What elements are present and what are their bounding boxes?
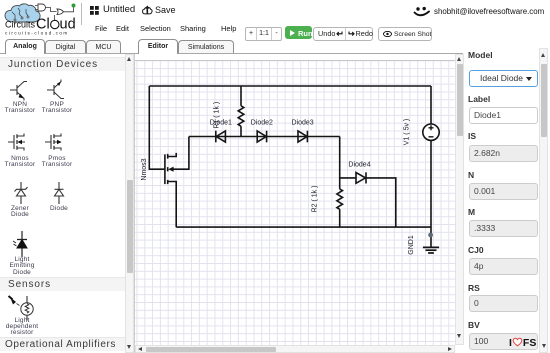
- green node: [72, 4, 76, 8]
- svg-text:circuits-cloud.com: circuits-cloud.com: [5, 31, 69, 36]
- wire Nmos3 body lead to diode row: [172, 137, 189, 170]
- labels: [141, 102, 415, 255]
- tabs: [0, 0, 550, 1]
- scrollbars: [0, 0, 550, 1]
- run button: [285, 26, 312, 39]
- save icon: [142, 5, 153, 15]
- sidebar scrollbar: [125, 54, 134, 353]
- wire from o of Cloud up to OR: [54, 15, 56, 20]
- wire diode4 to bottom right drop: [366, 178, 396, 227]
- untitled icon: [90, 6, 99, 15]
- svg-text:Diode4: Diode4: [348, 162, 370, 169]
- canvas vertical scrollbar: [455, 54, 464, 345]
- canvas: [135, 54, 455, 345]
- diode icon: [48, 182, 70, 204]
- separator: [81, 3, 82, 25]
- right panel: [0, 0, 550, 1]
- inner circuit traces: [12, 8, 29, 21]
- wire gate feed: [149, 86, 164, 169]
- diode Diode4 triangle: [356, 173, 366, 184]
- svg-text:Nmos3: Nmos3: [141, 158, 148, 180]
- wire AND to OR: [46, 8, 57, 12]
- svg-text:Circuits: Circuits: [5, 20, 36, 30]
- wire OR to green dot: [64, 6, 74, 12]
- logo: [2, 1, 82, 39]
- transistor Nmos3 drain stub: [168, 153, 177, 157]
- svg-text:Diode3: Diode3: [292, 120, 314, 127]
- diode Diode4 cathode bar: [365, 172, 367, 183]
- junction node dot: [428, 233, 433, 238]
- wire Nmos3 source lead down: [168, 182, 177, 228]
- nmos transistor icon: [8, 130, 32, 154]
- OR gate: [57, 9, 64, 15]
- AND gate: [38, 4, 46, 11]
- wire top rail to R1: [240, 86, 242, 106]
- panel scrollbar: [539, 48, 548, 353]
- header: [0, 0, 550, 1]
- svg-text:R1 ( 1k ): R1 ( 1k ): [214, 102, 221, 129]
- diode Diode1 triangle: [216, 131, 225, 142]
- wire diode4 branch: [340, 177, 356, 179]
- cloud body: [5, 4, 40, 22]
- menus: [95, 24, 107, 33]
- diode Diode2 triangle: [257, 131, 266, 142]
- diode Diode2 cathode bar: [266, 131, 268, 143]
- svg-text:GND1: GND1: [408, 235, 415, 255]
- light dependent resistor icon: [6, 294, 40, 322]
- pnp transistor icon: [45, 77, 69, 102]
- svg-text:Diode2: Diode2: [251, 120, 273, 127]
- wire R2 to bottom rail: [339, 209, 341, 227]
- watermark I heart FS: [509, 337, 536, 349]
- diode Diode3 triangle: [298, 131, 307, 142]
- light emitting diode icon: [10, 231, 34, 257]
- svg-text:V1 ( 5v ): V1 ( 5v ): [404, 119, 411, 145]
- resistor R2: [337, 189, 343, 209]
- wire R1 to diode row: [240, 126, 242, 136]
- screenshot button: [378, 27, 432, 41]
- zener diode icon: [10, 182, 32, 204]
- sidebar: [0, 0, 550, 1]
- wire V1 to ground: [430, 140, 432, 247]
- diode Diode1 cathode bar: [215, 131, 217, 143]
- svg-text:R2 ( 1k ): R2 ( 1k ): [312, 186, 319, 213]
- wire diode row down to R2: [339, 137, 341, 189]
- ground GND1: [423, 247, 439, 253]
- transistor Nmos3 channel segments: [167, 154, 169, 184]
- transistor Nmos3 gate plate: [164, 154, 166, 184]
- pmos transistor icon: [45, 130, 69, 154]
- mosfet arrow: [168, 167, 173, 172]
- resistor R1: [238, 106, 244, 126]
- wire bottom rail: [176, 226, 431, 228]
- undo/redo: [313, 27, 373, 41]
- wire diode row: [189, 136, 340, 138]
- diode Diode3 cathode bar: [306, 131, 308, 143]
- wire top rail to V1: [430, 86, 432, 124]
- smiley: [413, 5, 432, 20]
- voltage source V1: [423, 124, 439, 140]
- npn transistor icon: [8, 77, 32, 102]
- zoom group: [245, 27, 282, 41]
- canvas horizontal scrollbar: [135, 345, 455, 353]
- wire top rail: [149, 85, 431, 87]
